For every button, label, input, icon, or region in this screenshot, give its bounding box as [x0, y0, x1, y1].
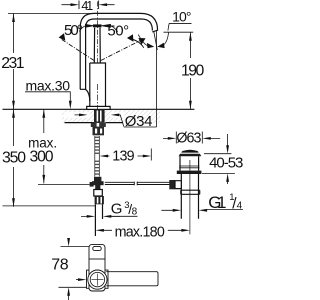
base flange: [87, 106, 110, 109]
arrowhead right dashed: [138, 38, 145, 45]
white band behind diameter arrows: [64, 112, 90, 118]
supply pipe: [95, 204, 102, 236]
faucet body: [90, 63, 106, 106]
svg-text:max.180: max.180: [115, 224, 165, 240]
svg-text:300: 300: [30, 149, 54, 166]
crosshair: [91, 274, 103, 286]
svg-text:G: G: [111, 201, 123, 218]
supply thread dark tip: [95, 196, 104, 204]
max.30 label underline and leader: [25, 92, 70, 103]
svg-text:4: 4: [237, 200, 243, 211]
pop-up rod segment 2: [137, 182, 169, 186]
dim 41 arrows: [71, 3, 108, 6]
arc stub left: [79, 26, 85, 32]
lever tilted left (dashed): [62, 39, 95, 60]
spout tip face: [152, 30, 157, 32]
lever stick: [94, 28, 100, 64]
svg-text:40-53: 40-53: [209, 155, 243, 172]
10 deg leader: [168, 23, 169, 30]
G3/8 arrows: [87, 215, 112, 218]
svg-text:Ø34: Ø34: [125, 113, 153, 130]
lever tilted right (dashed): [101, 39, 143, 60]
counter top line: [3, 108, 195, 110]
svg-text:8: 8: [132, 206, 138, 217]
arrowhead right arc: [157, 43, 165, 48]
dim line max300 vertical: [43, 109, 45, 183]
dim 41: right tick: [98, 1, 100, 10]
drain body: [180, 156, 199, 170]
svg-text:190: 190: [181, 62, 205, 79]
threaded stud below: [95, 137, 100, 175]
svg-text:Ø63: Ø63: [176, 130, 201, 146]
dim 40-53 arrows: [227, 134, 229, 184]
technical dimension drawing of single-lever basin mixer: [0, 0, 245, 300]
dim 63 arrows: [168, 137, 211, 140]
dim 190 ext line: [164, 31, 194, 33]
dim 139 right arrow and tick: [143, 155, 152, 158]
10 deg underline: [169, 22, 191, 24]
10 deg tilted reference: [154, 31, 158, 50]
body outline: [89, 244, 105, 291]
mounting nut: [93, 127, 105, 135]
dim 78 arrows: [67, 238, 70, 296]
spout outer curve: [80, 13, 157, 89]
lever slot: [93, 246, 101, 250]
spout circle outer: [88, 270, 107, 289]
svg-text:G1: G1: [208, 193, 226, 212]
arc near right dashed: [129, 39, 144, 48]
dim 78 ext lines: [59, 247, 90, 288]
diameter 34 underline: [124, 126, 157, 128]
svg-text:50°: 50°: [107, 22, 129, 39]
rod guide block: [94, 190, 103, 197]
dim 40-53 ext lines: [202, 154, 235, 174]
ext line at rod level: [38, 183, 90, 185]
dim 139 arrow: [100, 155, 109, 158]
svg-text:max.30: max.30: [26, 77, 71, 93]
pop-up rod segment 1: [105, 182, 135, 186]
arrows on 350: [12, 109, 15, 207]
svg-text:50°: 50°: [64, 22, 83, 39]
G3/8 underline: [109, 215, 138, 217]
lever centerline: [96, 2, 98, 64]
dim line 231/350 vertical: [13, 14, 15, 207]
body split line: [89, 258, 105, 260]
tailpipe coupling: [181, 190, 200, 194]
spout foot: [80, 89, 90, 101]
spout inner curve: [86, 19, 153, 89]
dim 41: left tick: [78, 1, 80, 10]
max.180 arrows: [95, 229, 189, 232]
arrowhead left dashed: [59, 33, 66, 40]
washer below deck: [91, 123, 96, 127]
arrowhead left arc: [147, 43, 154, 48]
drain centerline: [189, 160, 191, 234]
svg-text:10°: 10°: [172, 8, 191, 24]
dim diameter 63 ticks: [176, 132, 202, 144]
rod joint block: [94, 177, 101, 182]
svg-text:78: 78: [51, 257, 68, 274]
pivot arrowheads bar: [85, 24, 111, 28]
svg-text:231: 231: [1, 55, 25, 72]
svg-text:350: 350: [2, 150, 26, 167]
drain plug disc: [181, 150, 198, 153]
drain locknut: [177, 171, 202, 174]
diameter 34 arrows: [79, 114, 119, 117]
deck shank dark: [94, 110, 105, 123]
rod joint at drain: [169, 180, 175, 189]
spout circle inner: [90, 272, 104, 286]
dim 78 arrow to body: [78, 278, 87, 281]
vertical line from spout tip: [156, 31, 158, 127]
counter bottom line: [65, 122, 124, 124]
spout bar: [106, 272, 158, 286]
10 deg arc right: [163, 32, 169, 46]
drain flange: [179, 154, 202, 157]
10 deg arc left: [138, 35, 147, 46]
pop-up rod ball end: [90, 182, 94, 187]
counter hatching: [62, 110, 160, 123]
ext line spout top (231): [8, 13, 93, 15]
drain body ring: [179, 166, 199, 168]
G1 1/4 arrows: [173, 209, 207, 212]
drain tailpipe: [181, 174, 198, 219]
arrowhead on arc: [127, 34, 134, 42]
body centerline: [97, 84, 99, 110]
svg-text:41: 41: [81, 0, 93, 13]
arc stub right: [111, 26, 118, 32]
dim 190 vertical: [189, 32, 191, 109]
side tabs: [87, 270, 109, 288]
arrows on 231: [12, 14, 15, 110]
ext line at 350 bottom: [3, 205, 96, 207]
svg-text:139: 139: [112, 148, 134, 164]
